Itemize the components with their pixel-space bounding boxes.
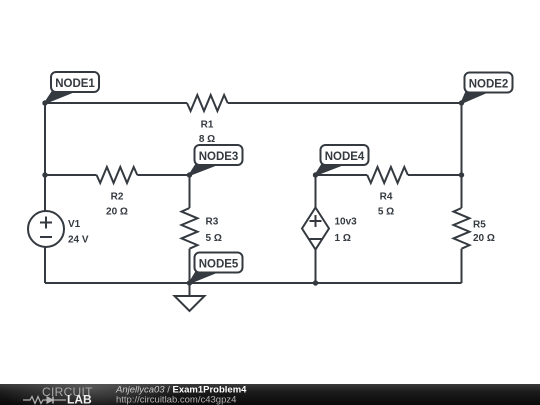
wire R3 to bottom rail: [189, 249, 191, 283]
svg-text:NODE3: NODE3: [199, 151, 239, 163]
V1 plus sign: [40, 217, 52, 229]
junction dot node5: [187, 280, 192, 285]
svg-text:8 Ω: 8 Ω: [199, 134, 215, 145]
wire source B1 to bottom rail: [315, 250, 317, 284]
node label NODE4: [316, 145, 369, 175]
V1 minus sign: [40, 236, 52, 238]
wire right vertical upper (NODE2 down to middle junction): [461, 103, 463, 175]
svg-text:NODE1: NODE1: [55, 78, 95, 90]
svg-text:20 Ω: 20 Ω: [106, 207, 128, 218]
footer bar: [0, 364, 540, 405]
junction dot node3: [187, 172, 192, 177]
node label NODE5: [190, 253, 243, 284]
resistor R3 body: [182, 208, 198, 249]
svg-text:R1: R1: [201, 120, 214, 131]
junction dot node1: [42, 100, 47, 105]
junction dot node4: [313, 172, 318, 177]
wire bottom rail: [45, 282, 462, 284]
wire R5 to bottom rail: [461, 249, 463, 283]
svg-text:20 Ω: 20 Ω: [473, 233, 495, 244]
wire middle-left (left rail to R2): [45, 174, 97, 176]
svg-text:NODE5: NODE5: [199, 259, 239, 271]
svg-text:R2: R2: [111, 192, 124, 203]
wire top rail left (NODE1 to R1): [45, 102, 187, 104]
wire top rail right (R1 to NODE2): [228, 102, 462, 104]
wire NODE3 down to R3: [189, 175, 191, 208]
ground stub: [189, 283, 191, 296]
node label NODE2: [462, 73, 513, 104]
resistor R1 body: [187, 95, 228, 111]
svg-text:5 Ω: 5 Ω: [206, 233, 222, 244]
wire left vertical upper (NODE1 to V1): [44, 103, 46, 211]
svg-text:NODE2: NODE2: [469, 79, 509, 91]
B1 plus sign: [310, 215, 322, 227]
logo squiggle resistor and diode: [23, 397, 66, 404]
node label NODE3: [190, 145, 243, 175]
junction dot left middle: [42, 172, 47, 177]
svg-text:5 Ω: 5 Ω: [378, 207, 394, 218]
svg-text:NODE4: NODE4: [325, 151, 365, 163]
wire left vertical lower (V1 to bottom rail): [44, 247, 46, 283]
wire R4 to right rail: [408, 174, 462, 176]
svg-text:10v3: 10v3: [335, 217, 358, 228]
B1 minus sign: [310, 238, 322, 240]
svg-text:24 V: 24 V: [68, 235, 89, 246]
wire NODE4 to R4: [316, 174, 368, 176]
svg-text:V1: V1: [68, 219, 81, 230]
svg-text:http://circuitlab.com/c43gpz4: http://circuitlab.com/c43gpz4: [116, 395, 236, 405]
dependent source B1 diamond: [302, 208, 329, 250]
junction dot node2: [459, 100, 464, 105]
svg-text:R3: R3: [206, 217, 219, 228]
junction dot right middle: [459, 172, 464, 177]
resistor R2 body: [97, 167, 138, 183]
wire middle junction down to R5: [461, 175, 463, 208]
resistor R4 body: [367, 167, 408, 183]
svg-text:1 Ω: 1 Ω: [335, 233, 351, 244]
svg-text:R5: R5: [473, 220, 486, 231]
resistor R5 body: [454, 208, 470, 249]
wire R2 to NODE3: [137, 174, 189, 176]
svg-text:LAB: LAB: [67, 393, 92, 405]
junction dot source bottom: [313, 280, 318, 285]
node label NODE1: [45, 72, 99, 103]
wire NODE4 down to source B1: [315, 175, 317, 208]
ground triangle: [175, 296, 205, 311]
svg-text:R4: R4: [380, 192, 393, 203]
voltage source V1 circle: [28, 211, 64, 247]
